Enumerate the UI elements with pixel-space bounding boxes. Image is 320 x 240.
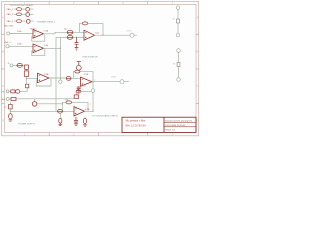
varistor R103 row3 (26, 20, 30, 24)
svg-text:10k: 10k (65, 99, 68, 101)
resistor R12 (74, 95, 78, 98)
ferrite L2 row2 (17, 13, 22, 16)
svg-text:PAD_2: PAD_2 (7, 13, 14, 16)
capacitor C8 electrolytic (9, 114, 13, 119)
testpoint pad B1 (177, 49, 181, 53)
capacitor C10 to gnd (59, 113, 61, 118)
feedback wire IC3A (62, 102, 88, 111)
wire testpoint A (177, 9, 179, 33)
svg-text:100k: 100k (17, 31, 21, 33)
resistor RA (177, 19, 180, 23)
ground under C8 (9, 120, 13, 121)
ferrite L1 row1 (17, 8, 22, 11)
decoupling cap C11 (74, 117, 78, 125)
svg-text:A: A (2, 16, 4, 20)
diode D1 row A (16, 90, 20, 94)
svg-text:IC1C: IC1C (95, 33, 100, 35)
svg-text:Rev 1.2 CC-BY-SA: Rev 1.2 CC-BY-SA (126, 125, 147, 128)
wire IN3 (13, 65, 38, 78)
resistor R8 (24, 71, 28, 76)
feedback wire IC1C (80, 23, 104, 35)
resistor R11 (76, 90, 81, 93)
wire testpoint branch (92, 82, 94, 112)
junction node IC2A input (26, 78, 27, 79)
svg-text:Mic preamp + filter: Mic preamp + filter (126, 120, 146, 123)
wire supply rails (10, 104, 74, 112)
svg-text:POWER SUPPLY: POWER SUPPLY (18, 123, 36, 125)
junction (62, 103, 63, 104)
svg-text:IC2A: IC2A (44, 73, 49, 76)
op-amp IC1A (33, 30, 44, 39)
wire IC1B out up to cap C2 (44, 37, 85, 48)
resistor R7 feedback (82, 22, 88, 25)
svg-text:D: D (196, 119, 198, 123)
svg-text:C: C (196, 84, 198, 88)
varistor R102 row2 (26, 13, 30, 17)
wire row2 (14, 13, 34, 15)
power flag (77, 62, 81, 66)
svg-text:C: C (2, 84, 4, 88)
svg-text:J3: J3 (8, 63, 10, 65)
feedback wire IC2B (73, 72, 93, 82)
terminal OUT2 (120, 80, 124, 84)
testpoint pad top (176, 6, 180, 10)
wire testpoint B (178, 52, 180, 77)
svg-text:MIC GND: MIC GND (4, 26, 14, 28)
capacitor C5 (66, 76, 71, 80)
resistor R8b (25, 65, 29, 69)
svg-text:PREAMP STAGE 1: PREAMP STAGE 1 (37, 21, 56, 24)
svg-text:CHECKSUM OK: CHECKSUM OK (82, 57, 99, 59)
svg-text:GND: GND (1, 99, 6, 101)
decoupling cap C6 (77, 86, 81, 90)
svg-text:OUT1: OUT1 (127, 31, 132, 33)
wire row B (9, 98, 74, 100)
op-amp IC3A (74, 107, 85, 116)
svg-text:14.07.2004 14:33:55: 14.07.2004 14:33:55 (165, 125, 186, 127)
op-amp IC2A (38, 73, 50, 82)
wire row1 (14, 8, 34, 10)
testpoint pad B2 (177, 78, 181, 82)
junction (92, 111, 93, 112)
svg-text:IC3A: IC3A (85, 108, 90, 111)
capacitor C1 (67, 30, 73, 34)
ground under C3 (75, 48, 79, 51)
wire IC2A out (49, 77, 80, 79)
wire vertical B (59, 48, 61, 80)
wire IC1C output (95, 34, 137, 36)
resistor R14 row B (11, 98, 16, 101)
capacitor C13 electrolytic (84, 117, 86, 125)
capacitor C7 vertical (9, 105, 13, 109)
svg-text:IC2B: IC2B (84, 74, 89, 76)
terminal OUT1 (130, 33, 134, 37)
testpoint pad A2 (176, 33, 180, 37)
wire row A (9, 90, 27, 92)
capacitor C2 (67, 35, 73, 39)
resistor RB (177, 63, 180, 67)
testpoint ring (59, 80, 62, 83)
wire R9 to feedback (78, 70, 80, 71)
junction (60, 48, 61, 49)
junction node (76, 37, 77, 38)
svg-text:10u: 10u (64, 29, 67, 31)
feedback wire IC2A (36, 78, 51, 86)
svg-text:R2: R2 (173, 64, 175, 66)
svg-text:C7: C7 (4, 107, 6, 109)
resistor R10 feedback (75, 70, 80, 73)
svg-text:Sound card mic preamp V2: Sound card mic preamp V2 (165, 120, 192, 123)
svg-text:B: B (2, 50, 4, 54)
long feedback wire from bottom stage (56, 37, 67, 111)
svg-text:LINE_2: LINE_2 (4, 42, 12, 44)
terminal pad row A (6, 90, 9, 93)
feedback wire IC1A (32, 34, 45, 41)
wire IN2 to U2 (9, 45, 33, 47)
wire IN1 to U1 (10, 33, 33, 35)
svg-text:Sheet: 1/1: Sheet: 1/1 (165, 128, 176, 131)
svg-text:7: 7 (90, 104, 91, 106)
decoupling cap C3 (75, 37, 79, 47)
terminal IN3 (10, 64, 13, 67)
frame column ticks top (49, 2, 148, 5)
ground under C13 (83, 125, 87, 126)
op-amp IC1C (84, 30, 95, 40)
frame outer border (2, 2, 199, 136)
junction (92, 81, 93, 82)
wire IC1A out to cap C1 (44, 32, 85, 33)
varistor R101 row1 (26, 7, 30, 11)
svg-text:IC1A: IC1A (44, 29, 49, 32)
feedback wire IC1B (32, 49, 45, 56)
ground under C6 (77, 91, 81, 92)
svg-text:B: B (197, 50, 199, 54)
resistor R13 row A (11, 90, 15, 93)
svg-text:OUT2: OUT2 (111, 76, 116, 78)
testpoint pad C (91, 89, 95, 93)
wire C8 leads (9, 102, 11, 120)
resistor R15 feedback (66, 101, 72, 104)
wire ring E stub (34, 99, 36, 102)
svg-text:TO SOUNDCARD LINE IN: TO SOUNDCARD LINE IN (92, 114, 118, 117)
svg-text:100k: 100k (17, 43, 21, 45)
svg-text:7: 7 (94, 80, 95, 82)
junction (62, 111, 63, 112)
title block frame (122, 117, 196, 132)
svg-text:IC1B: IC1B (44, 45, 49, 47)
svg-text:D: D (2, 119, 4, 123)
wire R11 to pad (76, 91, 91, 95)
terminal pad row B (6, 98, 9, 101)
junction (10, 111, 11, 112)
frame inner border (4, 5, 196, 133)
ground under C10 (58, 123, 62, 125)
svg-text:C12: C12 (82, 85, 85, 87)
svg-text:A: A (197, 16, 199, 20)
frame column numbers (2, 1, 199, 136)
terminal IN2 (6, 45, 9, 48)
svg-text:PAD_1: PAD_1 (7, 8, 14, 11)
capacitor C4 (17, 64, 23, 68)
wire row3 (14, 20, 34, 22)
wire IC3A out (85, 110, 94, 112)
resistor R16 vertical (26, 84, 29, 88)
svg-text:R1: R1 (173, 18, 175, 20)
varistor ring E (32, 102, 37, 107)
svg-text:MICROPHONE PREAMP: MICROPHONE PREAMP (10, 4, 33, 7)
wire IC2B out (92, 81, 129, 83)
capacitor C9 input (58, 109, 63, 113)
frame row ticks right (196, 35, 199, 104)
terminal IN1 (7, 32, 10, 35)
junction node IC1C out (102, 35, 103, 36)
svg-text:PAD_3: PAD_3 (7, 20, 14, 23)
op-amp IC1B (33, 44, 44, 53)
wire R16 lead (26, 79, 29, 92)
resistor R9 vertical (76, 65, 81, 70)
title block left cell text (126, 120, 147, 128)
frame column ticks bottom (49, 132, 148, 135)
title block right cell text (165, 120, 192, 132)
frame row ticks left (2, 35, 5, 104)
op-amp IC2B (81, 77, 93, 86)
ferrite L3 row3 (17, 20, 22, 23)
